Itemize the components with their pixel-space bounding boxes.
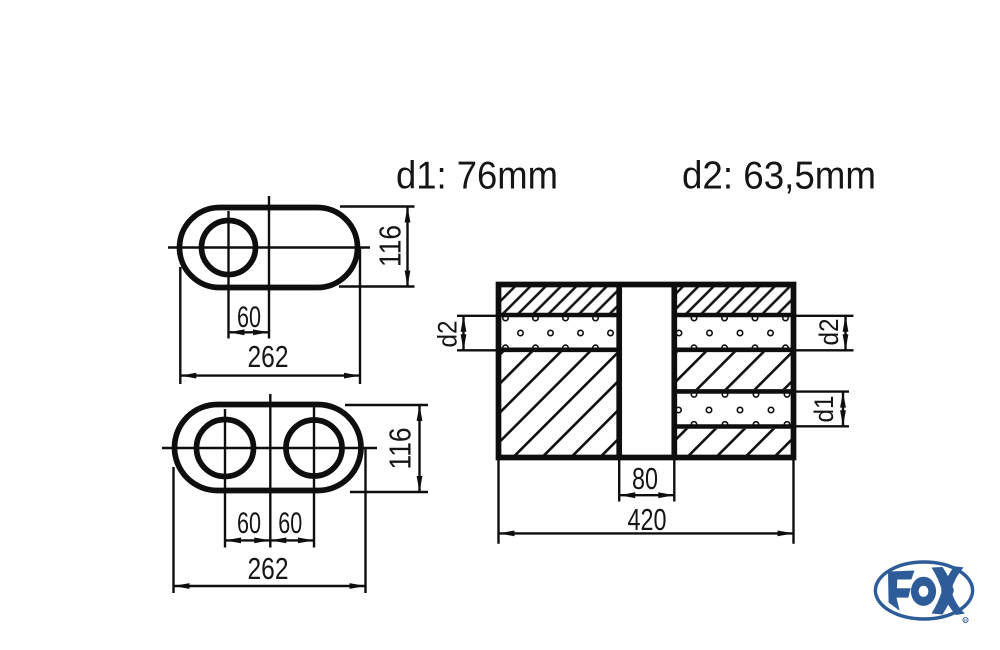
svg-text:116: 116 [373,225,408,267]
view B oval body outline [175,405,362,491]
svg-text:420: 420 [628,502,667,537]
svg-text:d2: 63,5mm: d2: 63,5mm [682,155,876,198]
view A dim 60 dimension line [229,331,270,333]
cross-section right top hatch band [677,287,791,313]
svg-text:262: 262 [248,339,289,374]
dim 420 left extension line [497,460,499,544]
view A dim 116 dimension line [406,207,408,287]
dim d2 left upper extension line [457,315,496,317]
svg-text:262: 262 [248,551,289,586]
svg-text:d2: d2 [433,321,463,348]
cross-section body outline [499,285,794,458]
view B dim 116 bottom extension line [350,491,428,493]
view B right pipe circle [286,420,342,476]
svg-text:116: 116 [383,428,418,470]
view B dim 116 top extension line [345,404,428,406]
view B dim 262 left extension line [172,467,174,593]
svg-text:60: 60 [237,507,261,540]
view B right pipe vertical centerline [313,406,315,548]
view A dim 262 dimension line [180,374,360,376]
cross-section right middle hatch band [677,352,791,389]
cross-section chamber right wall [671,285,677,458]
cross-section left absorber hatch area [501,352,617,458]
view A oval body outline [180,208,358,288]
svg-text:60: 60 [237,301,261,334]
view B dim 262 dimension line [174,585,366,587]
cross-section right d2 pipe top wall [677,313,794,318]
view A dim 262 left extension line [179,267,181,384]
FOX logo registered trademark [963,617,968,622]
dim d2 right upper extension line [796,315,854,317]
view A horizontal centerline [168,246,370,248]
view B left pipe vertical centerline [224,409,226,548]
dim d1 right upper extension line [796,390,849,392]
svg-text:80: 80 [632,461,658,496]
view B dim 262 right extension line [364,448,366,593]
dim d1 right dimension line [842,392,844,427]
FOX logo letter X right chevron [941,566,965,615]
dim 80 left extension line [618,460,620,502]
cross-section right bottom hatch band [677,429,791,458]
svg-text:d1: 76mm: d1: 76mm [396,155,558,198]
view A dim 262 right extension line [359,248,361,385]
cross-section right d1 perforation dots [691,392,696,397]
cross-section left top hatch band [501,287,617,313]
view B oval vertical centerline [269,394,271,548]
dim d2 left dimension line [462,316,464,351]
cross-section left d2 perforation dots [503,315,508,320]
svg-text:60: 60 [278,507,302,540]
cross-section left d2 pipe top wall [499,313,618,318]
view A oval vertical centerline [268,196,270,339]
dim d2 left lower extension line [457,349,496,351]
cross-section right d1 pipe top wall [677,389,794,394]
view A dim 116 bottom extension line [339,285,415,287]
cross-section right d2 perforation dots [691,315,696,320]
dim 80 dimension line [619,494,674,496]
FOX logo ellipse ring [875,562,972,619]
view A dim 116 top extension line [340,205,415,207]
cross-section right d2 pipe bottom wall [677,347,794,352]
view A pipe vertical centerline [227,211,229,339]
view B dim 116 dimension line [418,405,420,492]
view B horizontal centerline [162,447,377,449]
dim 420 dimension line [499,532,794,534]
dim 80 right extension line [673,460,675,502]
FOX logo letter F [888,571,915,611]
view B left pipe circle [197,420,254,477]
FOX logo letter X left chevron [932,567,955,615]
view B dim 60 left dimension line [225,539,270,541]
view B dim 60 right dimension line [270,539,314,541]
view A pipe hole d1 circle [202,221,256,275]
FOX logo letter O [911,577,936,606]
dim d2 right lower extension line [796,349,854,351]
dim d2 right dimension line [844,316,846,351]
cross-section chamber left wall [616,285,622,458]
svg-text:d2: d2 [814,319,844,346]
dim d1 right lower extension line [796,425,849,427]
cross-section right d1 pipe bottom wall [677,424,794,429]
svg-text:d1: d1 [809,396,839,423]
cross-section left d2 pipe bottom wall [499,347,618,352]
dim 420 right extension line [792,460,794,544]
